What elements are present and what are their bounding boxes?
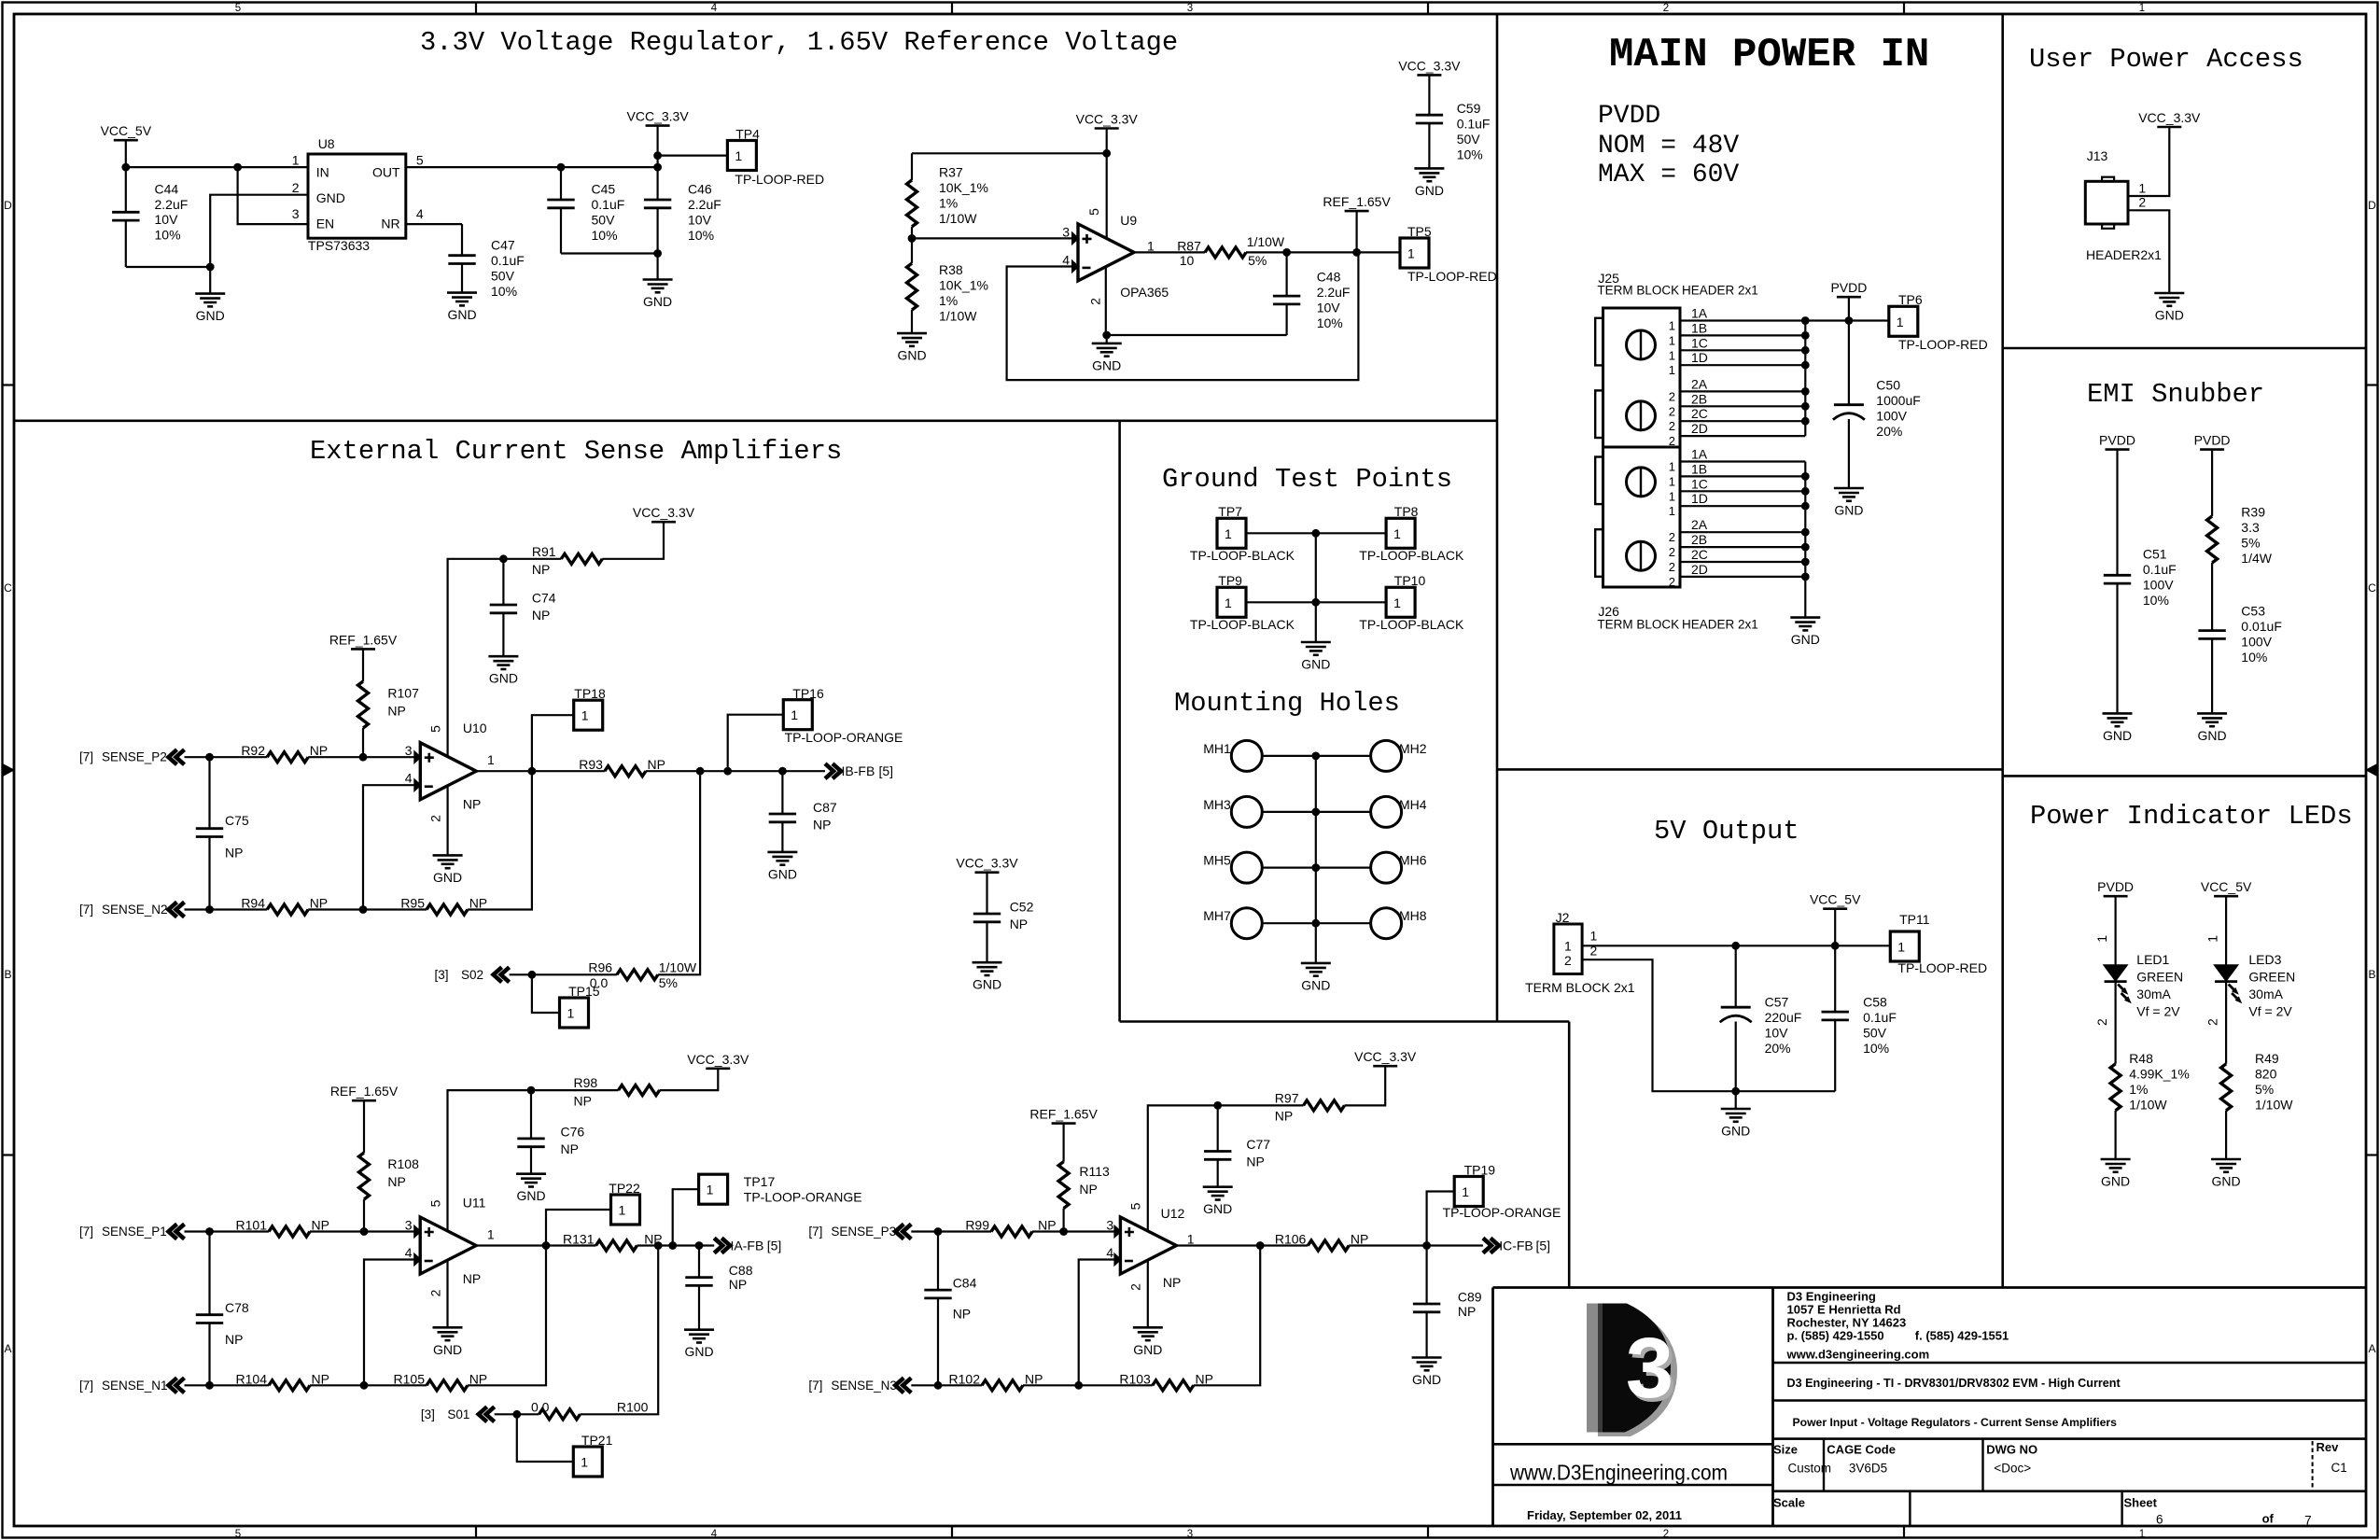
svg-text:TP5: TP5 [1407, 224, 1432, 239]
junction [1311, 598, 1320, 607]
junction J25 bus [1801, 346, 1810, 355]
wire VCC_5V to IN rail [126, 140, 308, 167]
resistor R93 [605, 766, 646, 777]
wire R93 to IB-FB [646, 770, 825, 772]
svg-text:C87: C87 [813, 800, 837, 815]
wire U12 output [1176, 1244, 1308, 1246]
svg-text:VCC_3.3V: VCC_3.3V [627, 109, 690, 124]
svg-text:1: 1 [1897, 940, 1905, 955]
svg-text:2: 2 [1669, 530, 1675, 544]
ground for U12 [1133, 1326, 1163, 1329]
svg-text:5: 5 [235, 1529, 241, 1540]
resistor R104 [269, 1380, 310, 1391]
junction [499, 554, 508, 563]
ground for C74 [488, 655, 518, 658]
wire J25 pin 1B [1680, 334, 1805, 336]
wire R101 to opamp [310, 1230, 414, 1232]
power PVDD at R39 [2200, 448, 2224, 451]
resistor R101 [269, 1226, 310, 1237]
junction [1831, 942, 1840, 950]
svg-text:GND: GND [897, 348, 926, 363]
svg-text:2: 2 [1669, 419, 1675, 433]
capacitor C77 [1204, 1150, 1231, 1153]
svg-text:VCC_5V: VCC_5V [2201, 879, 2252, 894]
svg-text:U12: U12 [1161, 1206, 1185, 1221]
wire J25 pin 1C [1680, 349, 1805, 351]
svg-text:1%: 1% [2129, 1082, 2148, 1097]
svg-text:1: 1 [1393, 595, 1401, 610]
svg-text:NP: NP [463, 797, 481, 812]
section border center box bottom [1120, 1020, 1570, 1023]
svg-text:GND: GND [1301, 977, 1330, 992]
wire VCC stem to U9 pin5 [1106, 129, 1108, 238]
svg-text:PVDD: PVDD [2097, 879, 2134, 894]
svg-text:C: C [2368, 581, 2376, 595]
svg-text:[7]: [7] [808, 1225, 822, 1239]
svg-text:IC-FB: IC-FB [1499, 1239, 1533, 1253]
svg-text:R87: R87 [1177, 238, 1201, 253]
svg-text:1: 1 [707, 1183, 714, 1197]
svg-text:GND: GND [1092, 357, 1121, 372]
svg-text:2: 2 [1564, 953, 1572, 968]
svg-text:1C: 1C [1691, 335, 1708, 350]
svg-text:REF_1.65V: REF_1.65V [329, 632, 398, 647]
wire J25 pin 2C [1680, 420, 1805, 422]
svg-text:[7]: [7] [808, 1379, 822, 1393]
svg-text:NP: NP [1351, 1232, 1368, 1247]
resistor R49 [2221, 1064, 2232, 1111]
svg-text:LED3: LED3 [2248, 952, 2281, 967]
svg-text:[3]: [3] [421, 1407, 435, 1421]
svg-text:20%: 20% [1876, 424, 1902, 439]
svg-text:R103: R103 [1119, 1371, 1151, 1386]
junction [1102, 331, 1111, 340]
svg-text:1: 1 [1669, 348, 1675, 362]
svg-text:4: 4 [1062, 253, 1070, 268]
svg-text:p. (585) 429-1550: p. (585) 429-1550 [1787, 1329, 1884, 1343]
junction [1311, 808, 1320, 817]
svg-text:NP: NP [561, 1141, 579, 1156]
wire R104 to R105 [310, 1384, 427, 1386]
section border right of 5V output [1568, 1022, 1571, 1288]
wire R105 to output node [468, 1246, 546, 1386]
svg-text:REF_1.65V: REF_1.65V [1029, 1107, 1098, 1122]
wire R94 to R95 [308, 908, 427, 910]
op-amp U10 [420, 743, 476, 800]
svg-text:5: 5 [428, 725, 443, 733]
wire J2 pin2 to ground rail [1582, 959, 1835, 1091]
wire to TP15 [532, 974, 560, 1013]
svg-text:D: D [2368, 199, 2376, 212]
ground for C89 [1412, 1356, 1442, 1359]
svg-text:TPS73633: TPS73633 [308, 238, 370, 253]
svg-text:Sheet: Sheet [2124, 1496, 2158, 1510]
net chevron SENSE_N2 [169, 903, 185, 917]
svg-text:50V: 50V [1457, 132, 1481, 147]
svg-text:5: 5 [427, 1199, 442, 1207]
svg-text:4: 4 [711, 3, 718, 14]
svg-text:2B: 2B [1691, 532, 1707, 547]
svg-text:NP: NP [310, 743, 328, 758]
svg-text:4: 4 [711, 1529, 718, 1540]
connector J2 term block [1554, 924, 1582, 974]
svg-text:MH4: MH4 [1399, 797, 1427, 812]
wire PVDD to LED1 [2115, 896, 2117, 965]
svg-text:GND: GND [768, 866, 797, 881]
svg-text:C88: C88 [729, 1263, 753, 1278]
wire J25 1A to PVDD and TP6 [1805, 319, 1889, 321]
junction [1422, 1241, 1431, 1250]
svg-text:TERM BLOCK: TERM BLOCK [1597, 618, 1679, 632]
svg-text:C74: C74 [532, 591, 556, 606]
svg-text:SENSE_N1: SENSE_N1 [102, 1379, 168, 1393]
svg-text:[5]: [5] [1536, 1239, 1551, 1253]
resistor R94 [267, 904, 308, 915]
svg-text:30mA: 30mA [2248, 987, 2283, 1001]
op-amp U11 [420, 1217, 476, 1274]
svg-text:1: 1 [619, 1203, 626, 1218]
svg-text:C84: C84 [953, 1275, 977, 1290]
svg-text:MH3: MH3 [1203, 797, 1231, 812]
svg-text:TP-LOOP-RED: TP-LOOP-RED [735, 172, 824, 187]
svg-text:VCC_3.3V: VCC_3.3V [1076, 112, 1139, 127]
junction [206, 263, 215, 272]
wire J26 pin 1C [1680, 490, 1805, 492]
svg-text:TP15: TP15 [568, 984, 600, 999]
test point TP16 [783, 700, 812, 730]
svg-text:GND: GND [433, 1342, 462, 1357]
svg-text:2: 2 [1663, 3, 1669, 14]
svg-text:6: 6 [2156, 1513, 2163, 1527]
svg-text:TP11: TP11 [1899, 912, 1930, 927]
svg-text:1057 E Henrietta Rd: 1057 E Henrietta Rd [1787, 1303, 1901, 1317]
svg-text:10K_1%: 10K_1% [939, 180, 988, 195]
power PVDD main input [1837, 296, 1861, 299]
wire J25 pin 1D [1680, 364, 1805, 366]
svg-text:[5]: [5] [767, 1239, 782, 1253]
junction J25 bus [1801, 387, 1810, 396]
svg-text:TERM BLOCK 2x1: TERM BLOCK 2x1 [1525, 980, 1635, 995]
svg-text:1: 1 [1590, 929, 1598, 944]
capacitor C53 [2198, 629, 2225, 632]
ground for R49 [2211, 1158, 2241, 1161]
svg-text:TP17: TP17 [744, 1174, 776, 1189]
test point TP4 [727, 141, 756, 171]
svg-text:NP: NP [1163, 1275, 1181, 1290]
svg-text:IB-FB: IB-FB [842, 763, 875, 778]
capacitor C89 [1413, 1303, 1440, 1306]
svg-text:Vf = 2V: Vf = 2V [2136, 1004, 2180, 1019]
resistor R107 [362, 649, 364, 681]
capacitor C46 [644, 199, 671, 202]
svg-text:1: 1 [2139, 1529, 2145, 1540]
wire TP9 to TP10 [1246, 601, 1386, 603]
wire to TP16 [728, 715, 784, 772]
test point TP18 [574, 700, 603, 730]
wire U10 output [476, 770, 605, 772]
svg-text:1: 1 [1225, 526, 1232, 541]
svg-text:1: 1 [487, 752, 495, 767]
svg-text:50V: 50V [592, 213, 616, 228]
svg-text:VCC_3.3V: VCC_3.3V [956, 856, 1018, 871]
ground for C52 [973, 961, 1002, 964]
svg-text:[7]: [7] [79, 1379, 93, 1393]
svg-text:10: 10 [1180, 253, 1195, 268]
svg-text:3.3V Voltage Regulator, 1.65V: 3.3V Voltage Regulator, 1.65V Reference … [420, 27, 1178, 58]
svg-text:VCC_5V: VCC_5V [101, 123, 152, 138]
wire PVDD stem to C50 [1848, 297, 1850, 405]
svg-text:1: 1 [1669, 319, 1675, 333]
power VCC_3.3V at C52 [975, 871, 1000, 874]
wire U12 pin2 [1147, 1260, 1149, 1327]
svg-text:GND: GND [1301, 657, 1330, 672]
connector J13 header [2085, 181, 2128, 224]
svg-text:1: 1 [791, 707, 798, 722]
net chevron IC-FB [1483, 1239, 1499, 1253]
svg-text:NP: NP [1275, 1108, 1293, 1123]
wire R98 to VCC [660, 1069, 719, 1090]
svg-text:<Doc>: <Doc> [1994, 1461, 2031, 1475]
wire R87 to TP5 [1246, 251, 1400, 253]
svg-text:R95: R95 [400, 896, 425, 911]
section border external current sense amplifiers [14, 419, 1497, 422]
svg-text:GND: GND [2155, 308, 2184, 323]
svg-text:TP-LOOP-BLACK: TP-LOOP-BLACK [1190, 548, 1295, 563]
power VCC_3.3V for U11 [706, 1068, 730, 1071]
power VCC_3.3V at J13 [2157, 126, 2181, 129]
svg-text:1/4W: 1/4W [2241, 551, 2272, 566]
svg-text:REF_1.65V: REF_1.65V [330, 1084, 399, 1099]
svg-text:4: 4 [416, 206, 424, 221]
mounting hole MH8 [1371, 908, 1402, 939]
capacitor C76 [517, 1138, 544, 1141]
svg-text:GND: GND [2212, 1174, 2241, 1189]
svg-text:NP: NP [469, 1371, 487, 1386]
svg-text:TP19: TP19 [1464, 1163, 1496, 1178]
ground for C53 [2197, 712, 2227, 715]
ground for C45 C46 [656, 254, 658, 280]
ground for J26 [1790, 616, 1820, 619]
svg-text:Power Indicator LEDs: Power Indicator LEDs [2030, 801, 2353, 832]
svg-text:10%: 10% [1863, 1041, 1889, 1056]
ground for C87 [767, 851, 797, 854]
ground for R38 [897, 332, 927, 335]
junction J26 bus [1801, 502, 1810, 511]
power PVDD for LED1 [2104, 895, 2128, 898]
wire J25 pin 2B [1680, 405, 1805, 407]
svg-text:1C: 1C [1691, 476, 1708, 491]
svg-text:NP: NP [225, 846, 243, 861]
svg-text:TP8: TP8 [1394, 504, 1419, 519]
svg-text:NP: NP [1079, 1182, 1097, 1197]
junction [1102, 149, 1111, 158]
svg-text:Custom: Custom [1788, 1461, 1832, 1475]
svg-text:A: A [2368, 1342, 2375, 1355]
svg-text:1B: 1B [1691, 461, 1707, 476]
svg-text:10K_1%: 10K_1% [939, 278, 988, 293]
junction [233, 163, 242, 172]
svg-text:PVDD: PVDD [2099, 433, 2135, 448]
svg-text:VCC_3.3V: VCC_3.3V [1398, 58, 1461, 73]
resistor R91 [561, 553, 602, 564]
power REF_1.65V for R108 [352, 1099, 376, 1102]
connector J26 term block [1603, 447, 1681, 587]
junction J26 bus [1801, 472, 1810, 481]
svg-text:1: 1 [1147, 238, 1155, 253]
svg-text:10%: 10% [1457, 147, 1483, 162]
svg-text:MH1: MH1 [1203, 741, 1231, 756]
junction [512, 1410, 521, 1419]
wire mounting hole bus [1315, 756, 1317, 963]
wire to TP4 [658, 155, 728, 157]
junction [359, 905, 368, 914]
svg-text:10%: 10% [688, 228, 714, 243]
svg-text:4: 4 [1106, 1245, 1113, 1260]
svg-text:C58: C58 [1863, 994, 1887, 1009]
svg-text:GND: GND [2198, 728, 2227, 743]
resistor R100 [539, 1409, 581, 1420]
svg-text:10%: 10% [491, 284, 517, 299]
wire SENSE_P1 [185, 1230, 270, 1232]
svg-text:0.1uF: 0.1uF [491, 253, 525, 268]
svg-text:External Current Sense Amplifi: External Current Sense Amplifiers [310, 436, 842, 467]
junction [908, 234, 917, 243]
svg-text:PVDD: PVDD [2194, 433, 2231, 448]
svg-text:MH5: MH5 [1203, 853, 1231, 868]
svg-text:TP-LOOP-RED: TP-LOOP-RED [1897, 960, 1987, 975]
capacitor C48 [1273, 295, 1300, 298]
svg-text:R101: R101 [236, 1218, 268, 1233]
junction [121, 163, 130, 172]
wire U9 output [1134, 251, 1205, 253]
svg-text:Mounting Holes: Mounting Holes [1174, 688, 1400, 719]
svg-text:1: 1 [1225, 595, 1232, 610]
svg-text:EMI Snubber: EMI Snubber [2087, 379, 2264, 410]
svg-text:1: 1 [1669, 474, 1675, 488]
junction [528, 767, 537, 776]
svg-text:R49: R49 [2255, 1051, 2279, 1066]
power VCC_5V for LED3 [2214, 895, 2238, 898]
svg-text:NP: NP [532, 608, 550, 623]
wire SENSE_N3 [911, 1384, 982, 1386]
svg-text:10%: 10% [2143, 593, 2169, 608]
svg-text:R39: R39 [2241, 505, 2265, 520]
wire J2 pin1 to TP11 [1582, 945, 1890, 946]
svg-text:C44: C44 [155, 181, 179, 196]
svg-text:VCC_5V: VCC_5V [1810, 892, 1861, 907]
ground for C51 [2103, 712, 2133, 715]
junction J26 bus [1801, 487, 1810, 496]
svg-text:A: A [4, 1342, 11, 1355]
power REF_1.65V for R107 [351, 648, 375, 651]
svg-text:R113: R113 [1079, 1164, 1110, 1179]
svg-text:D3 Engineering - TI - DRV8301: D3 Engineering - TI - DRV8301/DRV8302 EV… [1787, 1377, 2121, 1390]
svg-text:3: 3 [292, 206, 300, 221]
section border center box left [1118, 421, 1121, 1022]
svg-text:R107: R107 [387, 686, 419, 701]
svg-text:EN: EN [316, 217, 334, 231]
junction [1352, 248, 1361, 257]
wire to TP22 [546, 1210, 611, 1246]
svg-text:3: 3 [1187, 3, 1193, 14]
svg-text:50V: 50V [491, 269, 515, 284]
svg-text:R102: R102 [949, 1371, 981, 1386]
svg-text:GND: GND [196, 308, 225, 323]
svg-text:3: 3 [405, 743, 413, 758]
svg-text:GND: GND [1721, 1124, 1750, 1139]
svg-text:NP: NP [1196, 1371, 1213, 1386]
wire MH3 to MH4 [1262, 811, 1370, 813]
resistor R96 [617, 970, 658, 980]
svg-text:3: 3 [405, 1218, 413, 1233]
resistor R48 [2110, 1064, 2121, 1111]
resistor R95 [427, 904, 468, 915]
svg-text:GND: GND [516, 1188, 545, 1203]
power VCC_3.3V at C59 [1417, 74, 1441, 77]
junction [1074, 1381, 1083, 1390]
LED LED3 [2215, 965, 2237, 980]
svg-text:GREEN: GREEN [2248, 970, 2295, 985]
ground for C88 [684, 1328, 714, 1331]
svg-text:1: 1 [1669, 504, 1675, 518]
wire J26 pin 1A [1680, 460, 1805, 462]
svg-text:DWG NO: DWG NO [1986, 1442, 2037, 1456]
svg-text:20%: 20% [1765, 1041, 1791, 1056]
svg-text:SENSE_N3: SENSE_N3 [831, 1379, 897, 1393]
svg-text:1/10W: 1/10W [1247, 234, 1285, 249]
junction J26 bus [1801, 543, 1810, 552]
wire U12 pin5 [1148, 1105, 1218, 1231]
svg-text:100V: 100V [2241, 635, 2272, 650]
wire SENSE_P3 [911, 1230, 991, 1232]
svg-text:SENSE_P1: SENSE_P1 [102, 1225, 167, 1239]
svg-text:3.3: 3.3 [2241, 520, 2260, 535]
svg-text:TP9: TP9 [1218, 573, 1242, 588]
svg-text:Rev: Rev [2317, 1440, 2340, 1454]
svg-text:C46: C46 [688, 182, 712, 197]
wire J26 pin 2A [1680, 531, 1805, 533]
test point TP5 [1400, 238, 1429, 268]
capacitor C45 [547, 199, 574, 202]
wire J26 pin 2D [1680, 576, 1805, 578]
svg-text:PVDD: PVDD [1830, 280, 1867, 295]
resistor R113 [1062, 1124, 1064, 1162]
svg-text:220uF: 220uF [1765, 1010, 1802, 1025]
test point TP21 [573, 1447, 602, 1477]
junction [205, 1381, 214, 1390]
regulator U8 TPS73633 [308, 154, 406, 238]
svg-text:2: 2 [1669, 389, 1675, 403]
junction [359, 753, 368, 762]
wire to TP17 [673, 1189, 699, 1245]
svg-text:TP-LOOP-BLACK: TP-LOOP-BLACK [1359, 548, 1464, 563]
svg-text:10V: 10V [688, 213, 712, 228]
svg-text:TP-LOOP-ORANGE: TP-LOOP-ORANGE [785, 730, 903, 745]
svg-text:CAGE Code: CAGE Code [1827, 1442, 1896, 1456]
svg-text:2A: 2A [1691, 517, 1708, 532]
mounting hole MH2 [1371, 740, 1402, 771]
resistor R105 [427, 1380, 468, 1391]
junction [1282, 248, 1291, 257]
capacitor C75 [196, 827, 223, 830]
svg-text:1000uF: 1000uF [1876, 393, 1920, 408]
wire J26 pin 2B [1680, 546, 1805, 548]
mounting hole MH6 [1371, 852, 1402, 883]
ground for U10 [433, 854, 463, 857]
svg-text:2: 2 [1669, 560, 1675, 574]
svg-text:10%: 10% [592, 228, 618, 243]
svg-text:[3]: [3] [435, 968, 449, 982]
